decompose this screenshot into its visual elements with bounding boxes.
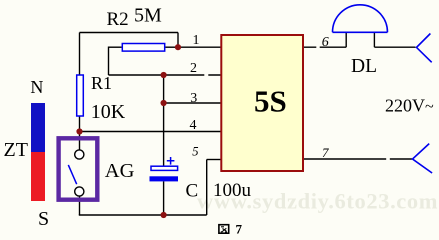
plug chevron bottom — [413, 144, 433, 173]
white watermark gap on pin2 wire — [204, 74, 208, 77]
plug chevron top — [417, 34, 432, 63]
junction node dot pin1/R2 — [175, 44, 181, 50]
svg-text:R1: R1 — [91, 73, 112, 93]
svg-text:7: 7 — [322, 145, 329, 160]
svg-text:R2: R2 — [107, 9, 129, 30]
svg-text:220V~: 220V~ — [385, 96, 434, 116]
svg-text:ZT: ZT — [4, 139, 28, 161]
wire bell right leg — [373, 32, 375, 47]
svg-text:6: 6 — [322, 35, 329, 50]
svg-text:4: 4 — [190, 118, 197, 133]
IC U1 5S body — [221, 35, 303, 171]
figure caption 图 7 glyph box — [219, 225, 229, 234]
wire top right vertical to pin1 — [177, 33, 179, 48]
svg-text:100u: 100u — [213, 180, 252, 201]
magnet ZT south pole (red) — [31, 152, 45, 201]
wire pin 6 — [304, 46, 347, 48]
wire bottom right vertical riser — [206, 160, 208, 216]
junction node dot pin2/bus — [161, 72, 167, 78]
white watermark gap on pin6 wire — [316, 46, 319, 49]
wire pin 1 — [178, 46, 221, 48]
svg-text:1: 1 — [193, 33, 200, 48]
wire pin 4 — [80, 131, 221, 133]
magnet ZT north pole (blue) — [31, 103, 45, 152]
wire bell to plug — [374, 46, 415, 48]
svg-text:2: 2 — [190, 61, 197, 76]
wire pin 3 — [164, 102, 221, 104]
wire pin 2 — [109, 74, 221, 76]
reed switch bottom contact circle — [75, 187, 84, 196]
resistor R2 body — [122, 44, 164, 52]
reed switch AG box — [59, 138, 98, 199]
resistor R1 body — [77, 75, 84, 116]
svg-text:5: 5 — [192, 145, 198, 159]
wire R2 left lead — [109, 46, 122, 48]
reed switch top contact circle — [75, 150, 84, 159]
white watermark gap on pin7 wire — [386, 158, 390, 161]
wire R2 right lead — [165, 46, 178, 48]
reed switch blade — [68, 165, 76, 184]
wire vertical bus to capacitor — [163, 75, 165, 166]
wire capacitor bottom lead — [163, 181, 165, 215]
junction node dot capacitor/bottom wire — [161, 212, 167, 218]
wire R1 bottom lead — [79, 117, 81, 150]
wire pin 7 — [304, 158, 413, 160]
capacitor plus sign — [167, 157, 175, 165]
svg-text:C: C — [186, 181, 199, 202]
wire switch bottom lead — [79, 196, 81, 215]
junction node dot pin3/bus — [161, 100, 167, 106]
svg-text:AG: AG — [105, 160, 135, 182]
wire left vertical to R1 top — [79, 33, 81, 75]
capacitor C1 bottom plate — [150, 176, 179, 181]
wire bottom horizontal — [79, 214, 207, 216]
wire pin 5 — [207, 159, 221, 161]
svg-text:5M: 5M — [134, 4, 162, 26]
svg-text:DL: DL — [351, 56, 377, 77]
bell DL base line — [333, 31, 388, 33]
svg-text:7: 7 — [236, 222, 243, 236]
svg-text:3: 3 — [190, 91, 197, 106]
svg-text:N: N — [30, 77, 43, 97]
svg-text:10K: 10K — [91, 101, 126, 123]
wire R2 left vertical drop — [108, 47, 110, 76]
bell DL dome arc — [333, 5, 388, 33]
svg-text:5S: 5S — [254, 84, 287, 119]
wire bell left leg — [345, 32, 347, 47]
svg-text:S: S — [38, 208, 49, 230]
junction node dot R1/pin4/switch — [76, 128, 82, 134]
wire top horizontal node A — [80, 32, 179, 34]
capacitor C1 top plate (+) — [151, 166, 178, 170]
